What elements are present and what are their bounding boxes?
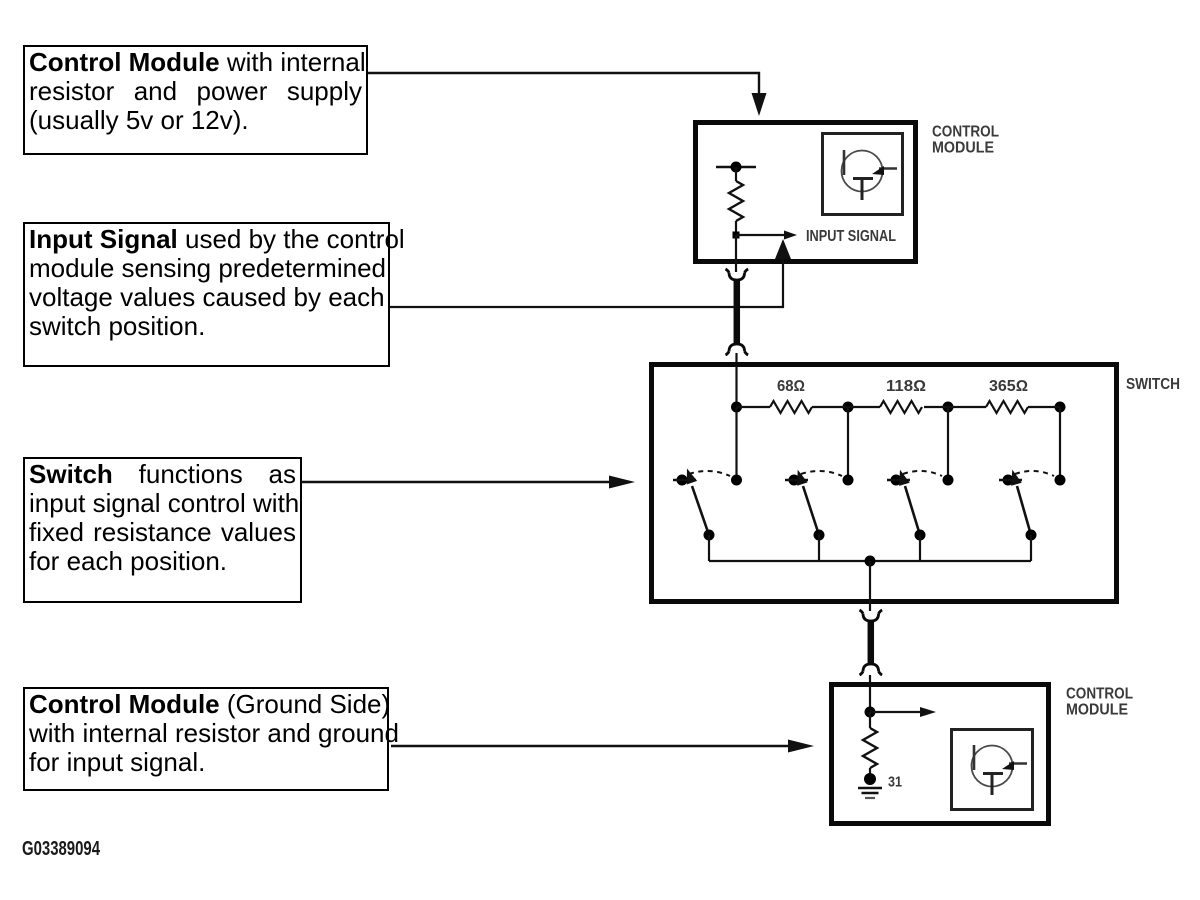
rail node A: [731, 402, 742, 413]
connector half (lower, opening down) at module input: [860, 664, 883, 675]
junction node input signal: [733, 232, 740, 239]
node input signal (bottom): [865, 707, 876, 718]
drop wire node A to contact: [735, 407, 737, 480]
control module (bottom) outer box: [832, 685, 1049, 824]
pivot drop wire S4: [1030, 535, 1032, 561]
rail node D: [1055, 402, 1066, 413]
svg-text:G03389094: G03389094: [22, 838, 101, 860]
wire resistor R3 to node C: [924, 406, 948, 408]
wire resistor R4 to node D: [1028, 406, 1060, 408]
svg-text:CONTROL: CONTROL: [1066, 686, 1133, 703]
wire node A to resistor R2: [737, 406, 771, 408]
wire resistor R5 to ground node: [869, 768, 871, 779]
resistor R5 (internal, ground side): [863, 728, 877, 768]
bus junction node: [865, 556, 876, 567]
wire node to resistor R1: [735, 167, 737, 181]
wire node to resistor R5: [869, 712, 871, 728]
entry wire into resistor rail: [735, 366, 737, 407]
ground symbol: [858, 788, 882, 798]
arrowhead down into top control module: [752, 93, 767, 116]
switch pole S3: [887, 470, 954, 541]
svg-text:68Ω: 68Ω: [777, 378, 805, 395]
wire resistor R1 to junction: [735, 221, 737, 235]
transistor U2 inner box: [952, 730, 1033, 810]
drop wire node B to contact: [847, 407, 849, 480]
exit wire from bus: [869, 561, 871, 611]
svg-text:MODULE: MODULE: [932, 140, 994, 157]
wire from callout 2 to input signal arrow: [390, 256, 783, 307]
entry wire to node: [869, 686, 871, 712]
svg-text:118Ω: 118Ω: [886, 378, 926, 395]
switch pole S2: [785, 470, 854, 541]
pivot drop wire S3: [919, 535, 921, 561]
connector half (lower, opening down): [726, 344, 749, 355]
wire into switch box: [735, 353, 737, 366]
drop wire node C to contact: [947, 407, 949, 480]
transistor symbol Q2: [972, 745, 1028, 795]
wire from callout 4 to bottom control module: [391, 745, 791, 747]
arrowhead input signal tap: [784, 231, 797, 240]
transistor symbol Q1: [842, 150, 898, 200]
svg-text:MODULE: MODULE: [1066, 702, 1128, 719]
wire from callout 1 to top control module: [368, 73, 759, 98]
arrowhead up at input signal: [775, 239, 791, 259]
harness cable W2 (thick): [868, 622, 875, 665]
control module (top) outer box: [696, 123, 916, 262]
svg-text:INPUT SIGNAL: INPUT SIGNAL: [806, 228, 896, 245]
svg-text:31: 31: [888, 774, 902, 791]
transistor U1 inner box: [823, 134, 903, 215]
switch box: [652, 365, 1117, 602]
arrowhead at switch box: [609, 476, 635, 489]
wire node C to resistor R4: [948, 406, 986, 408]
drop wire node D to contact: [1059, 407, 1061, 480]
connector half (upper, opening up) at switch output: [860, 610, 883, 621]
callout box 1: Control Module (power side) description: [23, 45, 368, 155]
arrowhead input signal tap (bottom): [920, 707, 936, 717]
resistor R3 118 ohm: [880, 401, 922, 413]
wire from callout 3 to switch box: [301, 481, 612, 483]
ground node dot: [864, 773, 876, 785]
switch pole S1: [673, 469, 742, 541]
switch pole S4: [999, 470, 1066, 541]
rail node C: [943, 402, 954, 413]
wire resistor R2 to node B: [812, 406, 848, 408]
input signal tap wire (bottom): [870, 711, 922, 713]
arrowhead at bottom control module: [788, 740, 814, 753]
wire into bottom control module: [869, 675, 871, 686]
rail node B: [843, 402, 854, 413]
supply rail stub with node: [716, 166, 756, 168]
harness cable W1 (thick): [734, 281, 741, 345]
callout box 2: Input Signal description: [23, 222, 390, 367]
common bus wire: [709, 560, 1031, 562]
resistor R1 (internal pull-up): [729, 181, 743, 221]
pivot drop wire S2: [818, 535, 820, 561]
callout box 4: Control Module (ground side) description: [23, 687, 389, 791]
svg-text:CONTROL: CONTROL: [932, 124, 999, 141]
wire node B to resistor R3: [848, 406, 880, 408]
wire junction down out of module: [735, 235, 737, 272]
input signal tap wire: [736, 234, 786, 236]
resistor R2 68 ohm: [770, 401, 812, 413]
svg-text:365Ω: 365Ω: [989, 378, 1028, 395]
resistor R4 365 ohm: [986, 401, 1028, 413]
svg-text:SWITCH: SWITCH: [1126, 376, 1180, 393]
connector half (upper, opening up): [726, 269, 749, 280]
pivot drop wire S1: [708, 535, 710, 561]
callout box 3: Switch description: [23, 457, 302, 603]
